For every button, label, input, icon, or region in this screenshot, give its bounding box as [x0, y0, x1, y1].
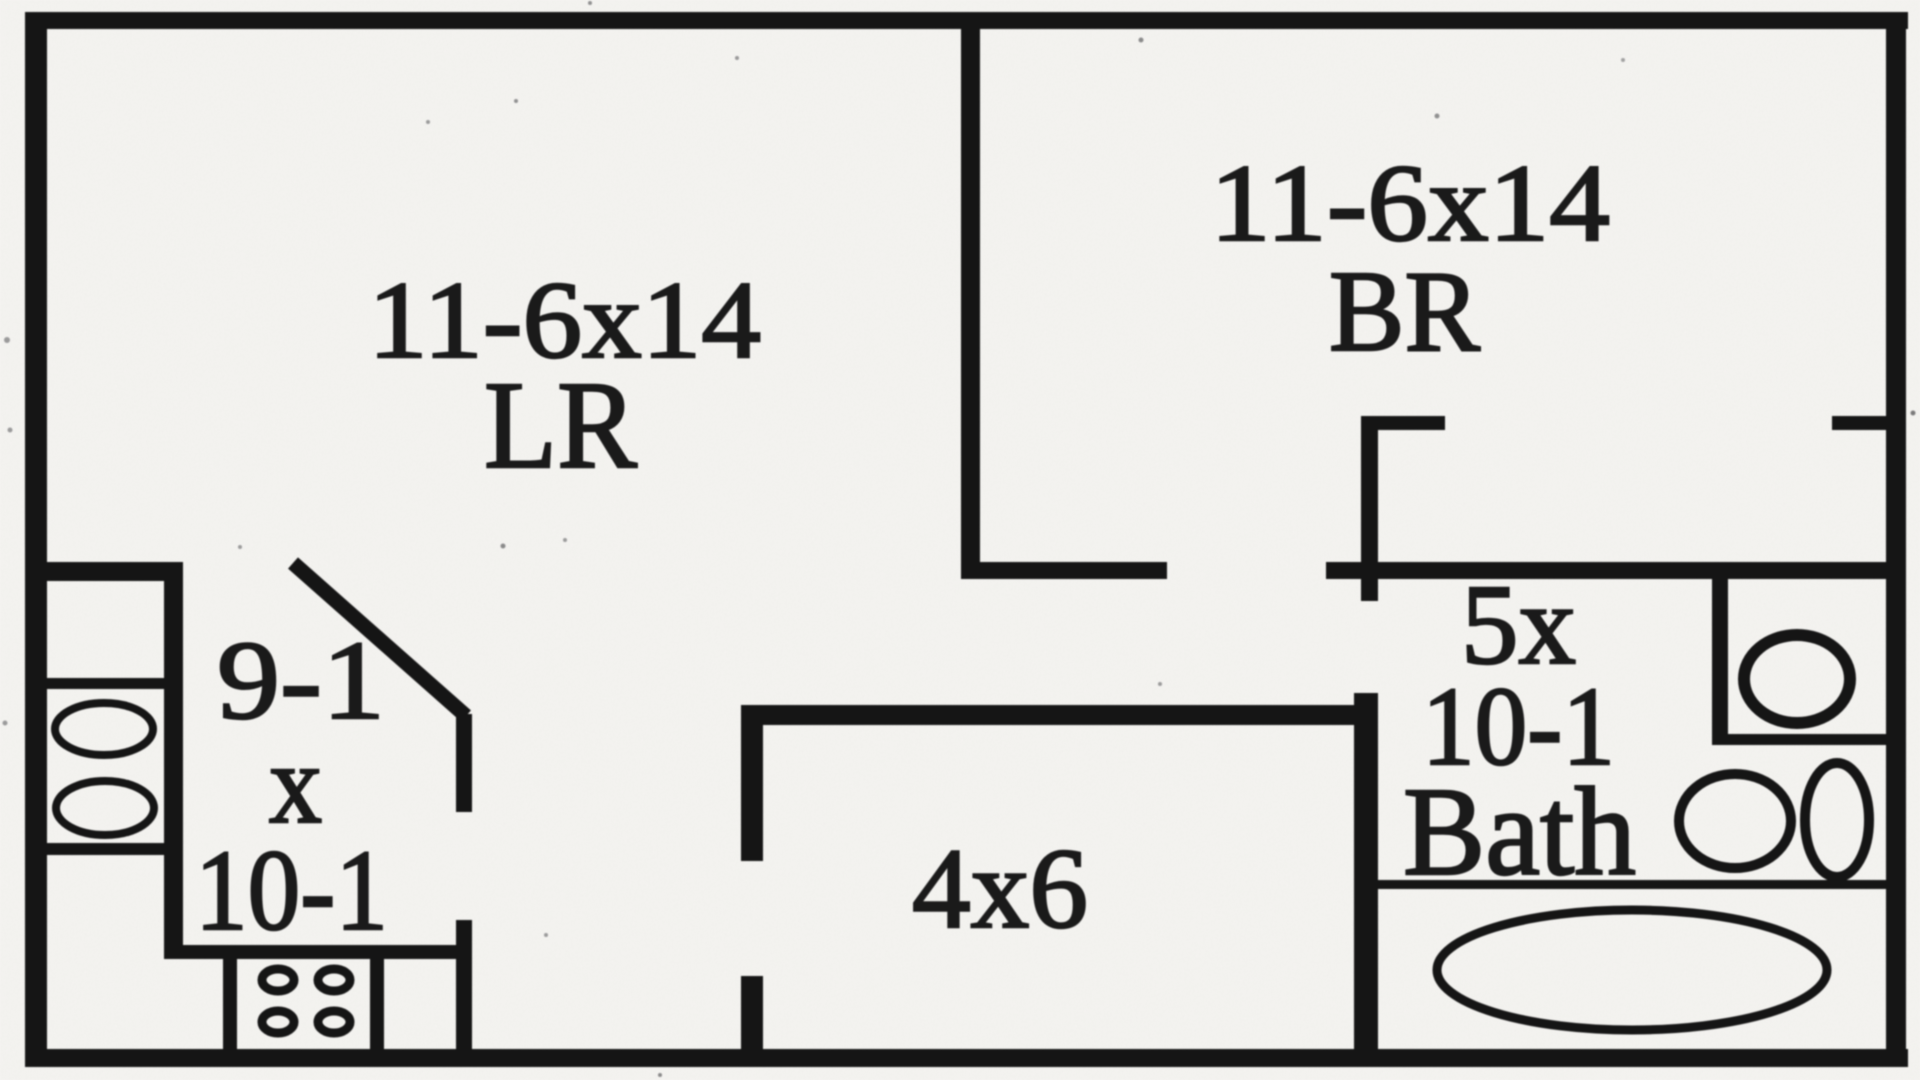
wall stove left — [223, 959, 237, 1049]
wall kitchen east jamb lower — [456, 920, 472, 1049]
wall bath left — [1354, 693, 1378, 1049]
scan speck 8 — [4, 337, 10, 343]
kitchen door swing diagonal — [293, 563, 466, 716]
svg-text:10-1: 10-1 — [195, 827, 388, 954]
scan speck 2 — [735, 56, 739, 60]
svg-text:11-6x14: 11-6x14 — [1210, 142, 1610, 264]
scan speck 5 — [501, 544, 506, 549]
wall BR-bath divider — [1326, 562, 1888, 579]
toilet bowl — [1744, 635, 1850, 723]
wall toilet niche left — [1712, 574, 1728, 745]
scan speck 15 — [3, 721, 8, 726]
wall 4x6 room left lower — [741, 976, 763, 1049]
wall toilet niche bottom — [1712, 734, 1888, 745]
stove burner top-left — [262, 969, 294, 991]
svg-text:4x6: 4x6 — [912, 825, 1088, 952]
stove burner top-right — [318, 969, 350, 991]
scan speck 9 — [8, 428, 13, 433]
scan speck 6 — [1435, 114, 1440, 119]
wall BR closet right stub — [1832, 416, 1888, 430]
scan speck 12 — [544, 933, 548, 937]
wall 4x6 room top — [741, 705, 1378, 725]
bathtub — [1437, 910, 1827, 1030]
wall LR-BR divider — [961, 22, 980, 579]
scan speck 11 — [1158, 682, 1162, 686]
outer wall top — [25, 12, 1908, 29]
wall bath sink divider — [1378, 880, 1888, 889]
wall counter divider 2 — [47, 843, 164, 855]
scan speck 1 — [514, 99, 518, 103]
kitchen sink basin 1 — [55, 703, 153, 755]
wall BR closet top bar — [1361, 416, 1445, 430]
kitchen sink basin 2 — [56, 781, 154, 835]
wall stove top bar — [164, 945, 470, 959]
svg-text:Bath: Bath — [1403, 763, 1636, 902]
stove burner bottom-right — [318, 1011, 350, 1033]
outer wall right — [1886, 12, 1906, 1067]
scan speck 13 — [658, 1073, 662, 1077]
wall stove right — [370, 959, 384, 1049]
wall counter divider 1 — [47, 678, 164, 689]
outer wall left — [25, 12, 47, 1067]
wall BR bottom west segment — [961, 562, 1167, 579]
scan speck 14 — [238, 545, 242, 549]
scan speck 17 — [588, 1, 592, 5]
scan speck 7 — [1911, 411, 1916, 416]
scan speck 4 — [426, 120, 430, 124]
outer wall bottom — [25, 1049, 1908, 1067]
wall BR closet jamb — [1361, 416, 1378, 601]
scan speck 3 — [1139, 38, 1144, 43]
stove burner bottom-left — [262, 1011, 294, 1033]
bath sink oval wide — [1679, 774, 1791, 868]
wall kitchen top bar — [25, 562, 183, 581]
scan speck 10 — [563, 538, 567, 542]
wall 4x6 room left upper — [741, 705, 763, 861]
bath sink oval tall — [1805, 763, 1869, 877]
svg-text:BR: BR — [1329, 248, 1480, 375]
scan speck 16 — [1621, 58, 1625, 62]
wall kitchen east jamb upper — [456, 714, 472, 812]
wall kitchen counter right — [164, 562, 183, 958]
svg-text:LR: LR — [484, 357, 638, 495]
